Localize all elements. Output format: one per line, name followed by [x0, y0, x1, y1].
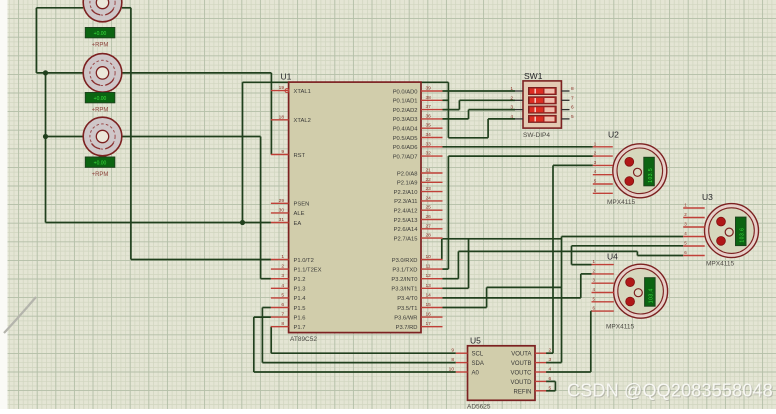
- U2 pin 4: [593, 169, 613, 175]
- svg-text:17: 17: [426, 321, 432, 327]
- svg-text:U2: U2: [608, 130, 619, 140]
- svg-text:P3.2/INT0: P3.2/INT0: [391, 277, 417, 283]
- wire U4 pin2 link: [581, 273, 592, 275]
- U4 pin 5: [592, 296, 614, 302]
- U2 pin 6: [593, 188, 613, 194]
- U2 reference label: [608, 130, 619, 140]
- svg-text:23: 23: [426, 186, 432, 192]
- wire VOUTD-REFIN vertical: [554, 381, 556, 390]
- U1 pin 39 P0.0/AD0: [393, 86, 443, 96]
- motor M2 body: [83, 54, 122, 93]
- svg-text:P3.6/WR: P3.6/WR: [394, 315, 417, 321]
- svg-text:14: 14: [426, 292, 432, 298]
- svg-text:P0.0/AD0: P0.0/AD0: [393, 89, 418, 95]
- svg-text:MPX4115: MPX4115: [607, 199, 635, 206]
- U1 pin 23 P2.2/A10: [394, 186, 443, 196]
- wire P3.1 vertical: [447, 156, 449, 269]
- svg-text:P3.3/INT1: P3.3/INT1: [391, 287, 417, 293]
- svg-text:25: 25: [426, 205, 432, 211]
- wire motor1 vertical to P1.0: [130, 8, 132, 260]
- wire P3.3 horizontal: [443, 287, 469, 289]
- U1 pin 11 P3.1/TXD: [392, 264, 442, 274]
- svg-text:CSDN @QQ2083558048: CSDN @QQ2083558048: [567, 381, 773, 401]
- svg-text:RST: RST: [294, 153, 306, 159]
- U1 pin 19 XTAL1: [271, 85, 311, 95]
- SW1 pin 5: [561, 114, 574, 120]
- junction motor3 left: [43, 134, 48, 139]
- U1 part value label AT89C52: [290, 336, 317, 343]
- motor M1 label +RPM: [92, 43, 109, 49]
- svg-text:SW-DIP4: SW-DIP4: [523, 132, 550, 139]
- junction motor2 left: [43, 70, 48, 75]
- U5 reference label: [470, 336, 481, 346]
- U2 pin 5: [593, 179, 613, 185]
- wire U4 pin1 link: [572, 264, 592, 266]
- wire U3 pin6 horizontal: [637, 255, 683, 257]
- U5 pin 10 A0: [449, 367, 480, 377]
- SW1 pin 4: [510, 114, 523, 120]
- SW1 switch element 2: [529, 97, 557, 104]
- svg-text:XTAL1: XTAL1: [294, 89, 311, 95]
- svg-text:+RPM: +RPM: [92, 108, 109, 114]
- U1 pin 12 P3.2/INT0: [391, 273, 442, 283]
- svg-text:P2.7/A15: P2.7/A15: [394, 236, 418, 242]
- svg-text:SDA: SDA: [472, 361, 484, 367]
- svg-text:SW1: SW1: [524, 71, 543, 81]
- svg-text:39: 39: [426, 86, 432, 92]
- wire P0.3 horizontal: [443, 118, 469, 120]
- svg-text:33: 33: [426, 141, 432, 147]
- U1 pin 16 P3.6/WR: [394, 312, 442, 322]
- wire P0.1 link: [443, 99, 449, 101]
- wire P0.3 staircase vertical: [468, 110, 470, 119]
- pressure sensor U3 MPX4115 body: [705, 204, 759, 258]
- U1 pin 36 P0.3/AD3: [393, 113, 443, 123]
- svg-text:5: 5: [549, 385, 552, 391]
- wire vertical to U4 pin2: [580, 274, 582, 298]
- svg-text:26: 26: [426, 214, 432, 220]
- U2 pressure display: [644, 157, 655, 186]
- svg-text:P0.7/AD7: P0.7/AD7: [393, 154, 418, 160]
- U3 pin 1: [683, 203, 705, 209]
- svg-text:31: 31: [279, 217, 285, 223]
- svg-text:8: 8: [571, 86, 574, 92]
- svg-text:22: 22: [426, 177, 432, 183]
- wire vertical U4 pin1 to U3 pin5: [571, 246, 573, 265]
- svg-text:P1.5: P1.5: [294, 306, 306, 312]
- wire P0.0 to SW1 pin1: [443, 90, 516, 92]
- U1 pin 8 P1.7: [271, 321, 306, 331]
- U1 pin 22 P2.1/A9: [397, 177, 443, 187]
- svg-text:2: 2: [281, 264, 284, 270]
- svg-text:6: 6: [571, 105, 574, 111]
- wire motor1 right terminal: [122, 7, 131, 9]
- U1 reference label: [281, 72, 292, 82]
- junction EA wire: [240, 220, 245, 225]
- wire horizontal to SW1 pin4 column: [448, 137, 488, 139]
- svg-text:ALE: ALE: [294, 211, 305, 217]
- U1 pin 7 P1.6: [271, 312, 306, 322]
- svg-text:REFIN: REFIN: [514, 389, 532, 395]
- SW1 pin 8: [561, 86, 574, 92]
- wire motor3 left terminal: [46, 136, 84, 138]
- wire P0.2 horizontal: [443, 109, 460, 111]
- motor M1 body: [83, 0, 122, 22]
- svg-text:4: 4: [281, 283, 284, 289]
- U4 pressure display: [645, 278, 656, 307]
- wire motor3 right terminal: [121, 136, 261, 138]
- svg-text:3: 3: [510, 105, 513, 111]
- svg-text:U3: U3: [702, 192, 713, 202]
- U2 pin 2: [593, 151, 613, 157]
- svg-text:XTAL2: XTAL2: [294, 118, 311, 124]
- svg-text:P1.0/T2: P1.0/T2: [294, 258, 314, 264]
- svg-text:EA: EA: [294, 221, 302, 227]
- U5 pin 4 VOUTC: [511, 367, 552, 377]
- motor M2 label +RPM: [92, 108, 109, 114]
- svg-text:103.6: 103.6: [740, 228, 746, 243]
- U4 pin 4: [592, 287, 614, 293]
- svg-text:4: 4: [510, 114, 513, 120]
- svg-text:MPX4115: MPX4115: [706, 261, 734, 268]
- svg-text:10: 10: [449, 367, 455, 373]
- svg-text:16: 16: [426, 312, 432, 318]
- svg-text:36: 36: [426, 113, 432, 119]
- U3 pin 6: [683, 250, 705, 256]
- svg-text:28: 28: [426, 233, 432, 239]
- wire P0.2 staircase vertical: [458, 100, 460, 109]
- svg-text:U5: U5: [470, 336, 481, 346]
- DAC U5 AD5625 body: [468, 346, 536, 401]
- U1 pin 26 P2.5/A13: [394, 214, 443, 224]
- wire to SDA: [262, 362, 455, 364]
- U1 pin 34 P0.5/AD5: [393, 132, 443, 142]
- U5 pin 5 REFIN: [514, 385, 552, 395]
- U3 part value label MPX4115: [706, 261, 734, 268]
- svg-text:P2.6/A14: P2.6/A14: [394, 227, 419, 233]
- svg-text:MPX4115: MPX4115: [606, 324, 634, 331]
- svg-text:8: 8: [281, 321, 284, 327]
- svg-text:5: 5: [571, 114, 574, 120]
- svg-text:+0.00: +0.00: [94, 161, 107, 167]
- svg-text:19: 19: [279, 85, 285, 91]
- wire VOUTA link: [546, 352, 553, 354]
- wire P3.4 horizontal: [443, 297, 581, 299]
- svg-text:VOUTC: VOUTC: [511, 371, 533, 377]
- wire to SW1 pin3: [469, 109, 516, 111]
- wire P1.6 vertical: [253, 317, 255, 372]
- wire P2.7 horizontal: [443, 238, 562, 240]
- wire U3 pin4 horizontal: [562, 236, 684, 238]
- svg-text:P0.6/AD6: P0.6/AD6: [393, 145, 418, 151]
- wire U2 pin3 horizontal: [553, 164, 593, 166]
- wire mid horizontal 287: [487, 286, 562, 288]
- svg-text:P1.4: P1.4: [294, 296, 307, 302]
- motor M2 rpm display: [85, 93, 115, 103]
- svg-text:P1.6: P1.6: [294, 315, 306, 321]
- wire vertical to RST: [270, 73, 272, 155]
- U1 pin 28 P2.7/A15: [394, 233, 443, 243]
- svg-text:VOUTD: VOUTD: [511, 380, 533, 386]
- U1 pin 25 P2.4/A12: [394, 205, 443, 215]
- wire motor1 left vertical: [35, 8, 37, 73]
- U3 pressure display: [736, 217, 747, 246]
- motor M3 rpm display: [85, 157, 115, 167]
- wire SW1 pin4 horizontal: [488, 118, 515, 120]
- pencil mark bottom left: [4, 297, 36, 333]
- SW1 switch element 1: [529, 88, 557, 95]
- U1 pin 17 P3.7/RD: [396, 321, 443, 331]
- wire VOUTC horizontal: [546, 371, 591, 373]
- svg-text:VOUTB: VOUTB: [511, 361, 532, 367]
- U1 pin 9 RST: [271, 149, 306, 159]
- U3 pin 4: [683, 231, 705, 237]
- U1 pin 35 P0.4/AD4: [393, 123, 443, 133]
- wire VOUTD link: [546, 380, 555, 382]
- svg-text:34: 34: [426, 132, 432, 138]
- svg-text:3: 3: [549, 357, 552, 363]
- svg-text:1: 1: [281, 254, 284, 260]
- wire P3.5 horizontal: [443, 307, 487, 309]
- svg-text:P2.5/A13: P2.5/A13: [394, 218, 418, 224]
- pressure sensor U2 MPX4115 body: [613, 144, 667, 198]
- wire P1.5 horizontal: [262, 307, 271, 309]
- wire U3 pin5 horizontal: [572, 245, 684, 247]
- svg-text:A0: A0: [472, 371, 480, 377]
- svg-text:2: 2: [510, 95, 513, 101]
- watermark CSDN: [567, 381, 774, 402]
- svg-text:AD5625: AD5625: [467, 404, 491, 410]
- svg-text:32: 32: [426, 151, 432, 157]
- svg-text:35: 35: [426, 123, 432, 129]
- svg-text:9: 9: [451, 348, 454, 354]
- U1 pin 31 EA: [271, 217, 301, 227]
- svg-text:P0.2/AD2: P0.2/AD2: [393, 108, 418, 114]
- wire along chip top left: [243, 81, 289, 83]
- U4 pin 1: [592, 259, 614, 265]
- motor M1 rpm display: [85, 28, 115, 38]
- SW1 reference label: [524, 71, 543, 81]
- svg-text:21: 21: [426, 168, 432, 174]
- svg-text:VOUTA: VOUTA: [511, 352, 531, 358]
- svg-text:+0.00: +0.00: [94, 96, 107, 102]
- U1 pin 33 P0.6/AD6: [393, 141, 443, 151]
- wire P1.7 vertical: [270, 327, 272, 354]
- SW1 part value label SW-DIP4: [523, 132, 550, 139]
- wire P3.0 vertical: [441, 239, 444, 260]
- svg-text:P2.1/A9: P2.1/A9: [397, 181, 418, 187]
- svg-text:U1: U1: [281, 72, 292, 82]
- dip switch SW1 body: [523, 81, 561, 128]
- U1 pin 3 P1.2: [271, 273, 306, 283]
- svg-text:30: 30: [279, 207, 285, 213]
- U3 reference label: [702, 192, 713, 202]
- wire P3.1 to U2 pin2: [448, 155, 592, 157]
- U1 pin 15 P3.5/T1: [397, 302, 442, 312]
- U1 pin 2 P1.1/T2EX: [271, 264, 322, 274]
- wire jog to U3 pin6: [636, 251, 638, 255]
- svg-text:7: 7: [281, 312, 284, 318]
- SW1 switch element 3: [529, 106, 557, 113]
- svg-text:27: 27: [426, 223, 432, 229]
- U2 pin 1: [593, 141, 613, 147]
- wire motor2 left terminal: [36, 72, 84, 74]
- svg-text:2: 2: [549, 348, 552, 354]
- svg-text:SCL: SCL: [472, 352, 484, 358]
- pressure sensor U4 MPX4115 body: [614, 264, 668, 318]
- wire P3.3 vertical: [468, 239, 470, 288]
- svg-text:7: 7: [571, 95, 574, 101]
- U1 pin 1 P1.0/T2: [271, 254, 314, 264]
- U1 pin 6 P1.5: [271, 302, 306, 312]
- U4 pin 2: [592, 268, 614, 274]
- svg-text:103.5: 103.5: [648, 168, 654, 183]
- wire along chip top right: [421, 81, 448, 83]
- wire vertical right of chip: [447, 82, 449, 138]
- svg-text:37: 37: [426, 104, 432, 110]
- svg-text:1: 1: [510, 86, 513, 92]
- svg-text:P3.7/RD: P3.7/RD: [396, 325, 418, 331]
- svg-text:4: 4: [549, 367, 552, 373]
- U5 pin 2 VOUTA: [511, 348, 551, 358]
- svg-text:P1.3: P1.3: [294, 287, 306, 293]
- wire P1.5 vertical: [261, 308, 263, 363]
- svg-text:P2.0/A8: P2.0/A8: [397, 171, 418, 177]
- wire motor3 vertical: [260, 137, 262, 279]
- wire to P1.2 pin: [261, 278, 271, 280]
- U1 pin 5 P1.4: [271, 292, 306, 302]
- wire P1.0/T2 horizontal: [131, 259, 271, 261]
- U1 pin 21 P2.0/A8: [397, 168, 443, 178]
- svg-text:13: 13: [426, 283, 432, 289]
- U1 pin 32 P0.7/AD7: [393, 151, 443, 161]
- left page margin: [0, 0, 8, 409]
- U1 pin 10 P3.0/RXD: [392, 254, 443, 264]
- svg-text:P2.3/A11: P2.3/A11: [394, 199, 417, 205]
- SW1 pin 1: [510, 86, 523, 92]
- U4 part value label MPX4115: [606, 324, 634, 331]
- U2 part value label MPX4115: [607, 199, 635, 206]
- U1 pin 18 XTAL2: [271, 114, 311, 124]
- wire P3.2 horizontal: [443, 278, 459, 280]
- svg-text:P3.5/T1: P3.5/T1: [397, 306, 417, 312]
- U1 pin 27 P2.6/A14: [394, 223, 443, 233]
- wire motor1 left terminal: [36, 7, 83, 9]
- wire P3.2 long horizontal: [458, 250, 637, 252]
- svg-text:11: 11: [426, 264, 431, 270]
- wire vertical 486: [486, 287, 488, 307]
- svg-text:103.4: 103.4: [649, 288, 655, 303]
- svg-text:U4: U4: [607, 252, 618, 262]
- wire P1.7 horizontal: [270, 326, 272, 328]
- svg-text:8: 8: [451, 357, 454, 363]
- svg-text:3: 3: [281, 273, 284, 279]
- svg-text:P0.4/AD4: P0.4/AD4: [393, 127, 419, 133]
- svg-text:PSEN: PSEN: [294, 202, 310, 208]
- SW1 pin 2: [510, 95, 523, 101]
- U5 pin 6 VOUTD: [511, 376, 552, 386]
- svg-text:6: 6: [281, 302, 284, 308]
- wire VOUTC vertical to U4 pin6: [590, 311, 592, 372]
- wire to SW1 pin2: [459, 99, 515, 101]
- wire P1.6 horizontal: [254, 316, 271, 318]
- wire P3.2 vertical: [457, 251, 459, 278]
- U5 pin 9 SCL: [451, 348, 484, 358]
- svg-text:5: 5: [281, 292, 284, 298]
- wire SW1 pin4 vertical: [487, 119, 489, 138]
- SW1 switch element 4: [529, 115, 557, 122]
- svg-text:15: 15: [426, 302, 432, 308]
- svg-text:12: 12: [426, 273, 432, 279]
- wire VOUTB vertical: [561, 237, 563, 363]
- svg-text:+0.00: +0.00: [94, 31, 107, 37]
- svg-text:P2.2/A10: P2.2/A10: [394, 190, 418, 196]
- svg-text:+RPM: +RPM: [92, 43, 109, 49]
- wire to EA pin: [46, 222, 271, 224]
- svg-text:P0.5/AD5: P0.5/AD5: [393, 136, 418, 142]
- svg-text:+RPM: +RPM: [92, 172, 109, 178]
- svg-text:18: 18: [279, 114, 285, 120]
- U5 pin 8 SDA: [451, 357, 484, 367]
- svg-text:P1.7: P1.7: [294, 325, 306, 331]
- U1 pin 14 P3.4/T0: [397, 292, 442, 302]
- microcontroller U1 AT89C52 body: [289, 82, 421, 333]
- wire U4 pin6 link: [590, 310, 593, 312]
- U1 pin 30 ALE: [271, 207, 305, 217]
- svg-text:P0.3/AD3: P0.3/AD3: [393, 117, 418, 123]
- wire VOUTB link: [546, 362, 562, 364]
- svg-text:P3.1/TXD: P3.1/TXD: [392, 267, 417, 273]
- U2 pin 3: [593, 160, 613, 166]
- U1 pin 24 P2.3/A11: [394, 195, 442, 205]
- U3 pin 5: [683, 241, 705, 247]
- U3 pin 2: [683, 212, 705, 218]
- wire VOUTA long vertical: [552, 165, 554, 353]
- U5 pin 3 VOUTB: [511, 357, 552, 367]
- U4 pin 3: [592, 278, 614, 284]
- svg-text:6: 6: [549, 376, 552, 382]
- U4 pin 6: [592, 306, 614, 312]
- svg-text:38: 38: [426, 95, 432, 101]
- svg-text:9: 9: [281, 149, 284, 155]
- svg-text:P0.1/AD1: P0.1/AD1: [393, 99, 418, 105]
- U1 pin 4 P1.3: [271, 283, 306, 293]
- svg-text:24: 24: [426, 195, 432, 201]
- SW1 pin 7: [561, 95, 574, 101]
- svg-text:10: 10: [426, 254, 432, 260]
- svg-text:P2.4/A12: P2.4/A12: [394, 209, 418, 215]
- svg-text:P1.1/T2EX: P1.1/T2EX: [294, 267, 322, 273]
- SW1 pin 6: [561, 105, 574, 111]
- wire to A0: [254, 371, 456, 373]
- U4 reference label: [607, 252, 618, 262]
- wire P0.6 to U2 pin1: [443, 146, 593, 148]
- U5 part value label: [467, 404, 491, 411]
- motor M3 body: [83, 117, 122, 156]
- U1 pin 29 PSEN: [271, 198, 309, 208]
- U1 pin 13 P3.3/INT1: [391, 283, 442, 293]
- motor M3 label +RPM: [92, 172, 109, 178]
- SW1 pin 3: [510, 105, 523, 111]
- U1 pin 38 P0.1/AD1: [393, 95, 443, 105]
- svg-text:P1.2: P1.2: [294, 277, 306, 283]
- wire motors common vertical: [45, 73, 47, 223]
- svg-text:P3.0/RXD: P3.0/RXD: [392, 258, 418, 264]
- U3 pin 3: [683, 222, 705, 228]
- svg-text:AT89C52: AT89C52: [290, 336, 317, 343]
- svg-text:29: 29: [279, 198, 285, 204]
- U1 pin 37 P0.2/AD2: [393, 104, 443, 114]
